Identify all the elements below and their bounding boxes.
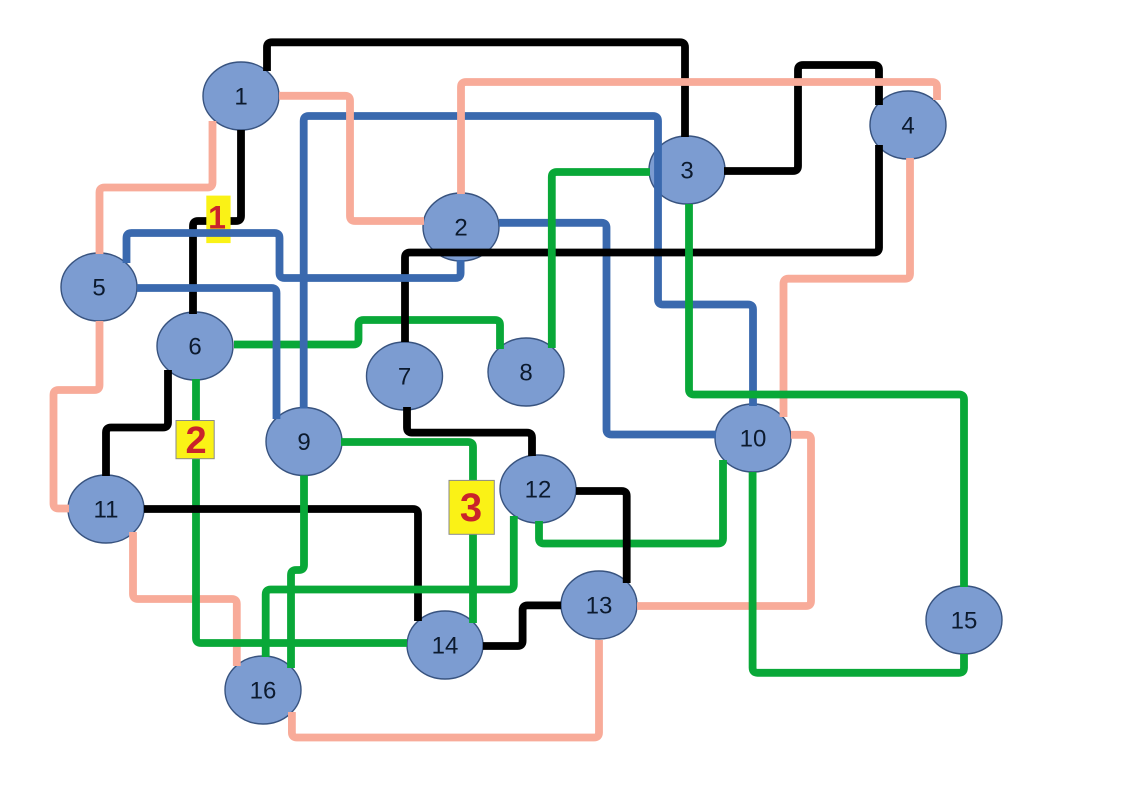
- node 7 (circle): [367, 342, 443, 410]
- node 11 (circle): [68, 475, 144, 543]
- svg-text:7: 7: [398, 364, 411, 391]
- svg-text:15: 15: [951, 608, 978, 635]
- green wire G4 : node 15 to node 10: [753, 472, 964, 673]
- node 9 (circle): [266, 408, 342, 476]
- green wire G5 : node 12 to node 10: [539, 460, 723, 544]
- label 2 yellow box: [176, 421, 214, 459]
- black wire B8 : node 4 to node 7: [405, 145, 879, 342]
- black wire B9 : node 3 to node 4: [724, 65, 879, 171]
- node 12 (circle): [500, 455, 576, 523]
- svg-text:2: 2: [454, 215, 467, 242]
- pink wire P5 : node 16 to node 13: [292, 640, 599, 738]
- pink wire P8 : node 2 to node 4: [461, 82, 937, 194]
- pink wire P4 : node 11 to node 16: [133, 532, 237, 666]
- black wire B2 : node 1 to node 6: [193, 130, 241, 314]
- black wire B7 : node 14 to node 13: [483, 605, 561, 646]
- black wire B3 : node 6 to node 11: [106, 370, 168, 476]
- svg-text:3: 3: [680, 158, 693, 185]
- blue wire L3 : node 9 to node 10: [304, 116, 753, 409]
- svg-text:5: 5: [92, 275, 105, 302]
- pink wire P7 : node 4 to node 10: [784, 158, 911, 417]
- svg-text:9: 9: [297, 429, 310, 456]
- svg-text:11: 11: [94, 497, 119, 524]
- green wire G1 : node 6 to node 8: [234, 320, 500, 349]
- node 6 (circle): [157, 312, 233, 380]
- node 3 (circle): [649, 136, 725, 204]
- black wire B4 : node 11 to node 14: [144, 509, 418, 621]
- green wire G7 : node 9 to node 16: [291, 476, 304, 669]
- svg-text:6: 6: [188, 334, 201, 361]
- blue wire L1 : node 5 to node 2: [127, 233, 461, 278]
- label 1 yellow box: [206, 196, 230, 244]
- svg-text:1: 1: [234, 84, 247, 111]
- pink wire P6 : node 13 to node 10: [637, 435, 811, 606]
- green wire G8 : node 6 to node 14: [196, 379, 407, 643]
- green wire G2 : node 8 to node 3: [552, 172, 650, 348]
- node 8 (circle): [488, 338, 564, 406]
- svg-text:10: 10: [740, 426, 767, 453]
- node 14 (circle): [407, 611, 483, 679]
- pink wire P3 : node 5 to node 11: [54, 321, 100, 509]
- svg-text:2: 2: [186, 420, 207, 462]
- pink wire P1 : node 1 to node 2: [279, 96, 424, 221]
- svg-text:16: 16: [250, 678, 277, 705]
- green wire G3 : node 3 to node 15: [689, 204, 964, 587]
- svg-text:14: 14: [432, 633, 459, 660]
- node 5 (circle): [61, 253, 137, 321]
- blue wire L4 : node 2 to node 10: [499, 223, 716, 435]
- label 3 yellow box: [449, 480, 494, 534]
- node 4 (circle): [870, 91, 946, 159]
- black wire B1 : node 1 to node 3: [267, 42, 685, 137]
- green wire G9 : node 12 to node 16: [266, 516, 514, 657]
- node 16 (circle): [225, 656, 301, 724]
- node 1 (circle): [203, 62, 279, 130]
- node 15 (circle): [926, 586, 1002, 654]
- node 13 (circle): [561, 571, 637, 639]
- green wire G6 : node 9 to node 14: [341, 442, 473, 623]
- svg-text:4: 4: [901, 113, 914, 140]
- pink wire P2 : node 1 to node 5: [100, 121, 213, 254]
- blue wire L2 : node 5 to node 9: [137, 288, 277, 419]
- svg-text:12: 12: [525, 477, 552, 504]
- svg-text:13: 13: [586, 593, 613, 620]
- svg-text:3: 3: [460, 486, 482, 530]
- node 2 (circle): [423, 193, 499, 261]
- svg-text:8: 8: [519, 360, 532, 387]
- node 10 (circle): [715, 404, 791, 472]
- black wire B5 : node 7 to node 12: [407, 407, 532, 456]
- black wire B6 : node 12 to node 13: [576, 491, 627, 583]
